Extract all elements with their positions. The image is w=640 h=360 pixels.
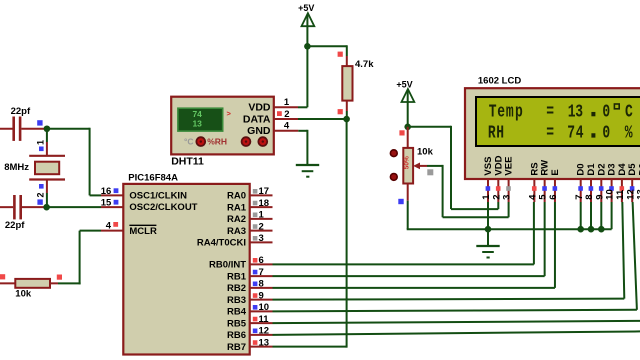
svg-text:RB5: RB5 <box>227 318 247 329</box>
wire DATA: DHT11 pin2 to node <box>274 118 347 120</box>
svg-text:6: 6 <box>548 195 559 200</box>
svg-text:2: 2 <box>36 192 46 197</box>
LCD pin 5 RW <box>538 160 551 202</box>
svg-text:2: 2 <box>259 221 264 232</box>
svg-text:1: 1 <box>259 210 265 221</box>
LCD text line 1: Temp = 13.0°C <box>489 101 633 122</box>
svg-text:6: 6 <box>259 255 264 266</box>
LCD pin 2 VDD <box>491 155 504 202</box>
label pin 4 <box>106 221 118 232</box>
svg-text:15: 15 <box>101 197 112 208</box>
LCD pin 7 D0 <box>574 163 587 202</box>
U1 pin RB3 / stub 9 <box>227 290 273 305</box>
LCD pin 11 D4 <box>615 163 628 202</box>
node D0 junction <box>577 226 584 233</box>
svg-text:MCLR: MCLR <box>129 226 157 237</box>
svg-text:%: % <box>625 122 633 143</box>
wire LCD VSS to rail <box>487 202 489 229</box>
LCD pin 8 D1 <box>584 163 597 202</box>
svg-text:22pf: 22pf <box>11 106 31 117</box>
crystal X1 8MHz <box>4 129 65 207</box>
wire LCD D1 to rail <box>590 202 592 229</box>
LCD pin 12 D5 <box>625 163 638 202</box>
DHT11 red indicator 2 <box>242 137 251 146</box>
U1 pin RA3 / stub 2 <box>227 221 273 236</box>
svg-text:RB2: RB2 <box>227 283 246 294</box>
svg-text:+5V: +5V <box>298 3 314 13</box>
svg-text:16: 16 <box>101 186 112 197</box>
wire LCD D2 to rail <box>600 202 602 229</box>
ground symbol (LCD) <box>476 229 499 257</box>
svg-text:1: 1 <box>36 140 46 145</box>
node D2 junction <box>598 226 605 233</box>
svg-text:0: 0 <box>602 101 610 122</box>
wire R2 bottom to DATA node <box>338 101 347 119</box>
U1 pin RB1 / stub 7 <box>227 267 273 282</box>
svg-text:OSC2/CLKOUT: OSC2/CLKOUT <box>129 202 197 213</box>
svg-text:VDD: VDD <box>248 102 271 114</box>
LCD pin 13 D6 <box>636 163 640 202</box>
node +5V junction <box>304 43 311 50</box>
svg-text:50%: 50% <box>404 156 411 169</box>
svg-text:8MHz: 8MHz <box>4 162 29 173</box>
LCD pin 4 RS <box>527 162 540 202</box>
svg-text:13: 13 <box>192 119 202 129</box>
svg-text:4: 4 <box>576 122 584 143</box>
svg-text:RA4/T0CKI: RA4/T0CKI <box>197 238 246 249</box>
wire OSC1: junction to PIC pin16 <box>47 128 123 196</box>
svg-text:VEE: VEE <box>504 157 515 176</box>
wire GND: DHT11 pin4 to ground <box>274 130 308 165</box>
wire wiper to LCD VEE <box>427 165 509 217</box>
svg-text:R: R <box>488 122 496 143</box>
node D1 junction <box>588 226 595 233</box>
RV1 wiper arrow <box>413 163 433 176</box>
svg-text:DATA: DATA <box>243 113 271 125</box>
LCD screen <box>476 97 640 146</box>
resistor R1 10k <box>0 274 62 299</box>
U1 pin RB7 / stub 13 <box>227 337 273 352</box>
U1 pin RB6 / stub 12 <box>227 326 273 341</box>
LCD pin 10 D3 <box>605 163 618 202</box>
svg-text:1602 LCD: 1602 LCD <box>478 76 521 87</box>
svg-text:RA0: RA0 <box>227 191 246 202</box>
svg-text:8: 8 <box>259 279 264 290</box>
svg-text:RB0/INT: RB0/INT <box>209 260 246 271</box>
svg-text:p: p <box>515 101 523 122</box>
svg-text:RB3: RB3 <box>227 295 246 306</box>
svg-text:10k: 10k <box>15 288 32 299</box>
DHT11 display window <box>178 108 223 131</box>
svg-text:18: 18 <box>259 198 270 209</box>
U1 pin name MCLR with overline <box>129 225 157 237</box>
svg-text:10k: 10k <box>417 147 434 158</box>
capacitor C2 22pf (bottom) <box>0 195 44 231</box>
svg-text:RB4: RB4 <box>227 307 247 318</box>
label pin 16 <box>101 186 119 197</box>
U1 pin RB4 / stub 10 <box>227 302 273 317</box>
svg-text:=: = <box>546 122 554 143</box>
svg-text:10: 10 <box>259 302 270 313</box>
wire RB7 to DHT11 DATA <box>273 119 347 348</box>
svg-text:22pf: 22pf <box>5 220 25 231</box>
svg-text:>: > <box>227 109 232 118</box>
svg-text:3: 3 <box>502 195 513 200</box>
node junction C2/X1/OSC2 <box>43 204 50 211</box>
svg-text:GND: GND <box>247 125 271 137</box>
svg-text:RB6: RB6 <box>227 330 246 341</box>
wire RB2 to LCD E <box>273 202 555 288</box>
wire RB5 to LCD D6 <box>273 321 640 323</box>
svg-text:DHT11: DHT11 <box>171 156 204 168</box>
LCD pin 1 VSS <box>481 157 494 202</box>
svg-text:RB7: RB7 <box>227 342 246 353</box>
wire +5V to R2 top <box>307 45 346 66</box>
svg-text:7: 7 <box>567 122 575 143</box>
svg-text:4.7k: 4.7k <box>355 59 374 70</box>
svg-text:%RH: %RH <box>207 137 227 147</box>
svg-text:RA2: RA2 <box>227 214 246 225</box>
DHT11 red indicator 3 <box>258 137 267 146</box>
wire RB0 to LCD RS <box>273 202 534 264</box>
U1 pin RB5 / stub 11 <box>227 314 273 329</box>
svg-text:+5V: +5V <box>396 80 412 90</box>
ground symbol (DHT11) <box>296 165 319 177</box>
DHT11 red indicator 1 <box>196 137 205 146</box>
wire +5V to LCD VDD <box>408 126 499 209</box>
svg-text:3: 3 <box>575 101 583 122</box>
svg-text:RA3: RA3 <box>227 226 246 237</box>
svg-text:e: e <box>497 101 505 122</box>
wire RB3 to LCD D4 <box>273 202 625 300</box>
svg-text:7: 7 <box>259 267 264 278</box>
svg-text:C: C <box>625 101 633 122</box>
LCD text line 2: RH = 74.0 % <box>488 122 633 143</box>
U1 pin RB2 / stub 8 <box>227 279 273 294</box>
svg-text:OSC1/CLKIN: OSC1/CLKIN <box>129 190 187 201</box>
U1 pin RB0/INT / stub 6 <box>209 255 272 270</box>
wire OSC2: junction to PIC pin15 <box>47 206 124 208</box>
node junction C1/X1/OSC1 <box>44 125 51 132</box>
U1 pin RA2 / stub 1 <box>227 210 273 225</box>
svg-text:RA1: RA1 <box>227 202 247 213</box>
svg-text:13: 13 <box>259 337 270 348</box>
wire RB4 to LCD D5 <box>273 202 637 311</box>
wire LCD D0 to rail <box>580 202 582 229</box>
node pot top junction <box>399 124 411 136</box>
svg-text:3: 3 <box>259 233 264 244</box>
svg-text:12: 12 <box>259 326 270 337</box>
U1 pin RA4/T0CKI / stub 3 <box>197 233 273 248</box>
resistor R2 4.7k <box>342 59 374 101</box>
wire MCLR net: R1 to PIC pin4 <box>58 231 123 285</box>
power +5V (main) <box>298 3 314 107</box>
LCD pin 9 D2 <box>594 163 607 202</box>
LCD pin 6 E <box>548 169 561 202</box>
svg-text:=: = <box>546 101 554 122</box>
node VSS ground junction <box>485 226 492 233</box>
svg-text:4: 4 <box>106 221 112 232</box>
RV1 up button <box>390 150 397 157</box>
svg-text:E: E <box>550 169 561 175</box>
svg-text:RB1: RB1 <box>227 271 247 282</box>
crystal pin label 1 <box>36 140 46 151</box>
LCD LCD1 1602 body <box>465 76 640 179</box>
svg-text:m: m <box>506 101 514 122</box>
wire ground rail <box>407 202 612 229</box>
op-amp U1 PIC16F84A microcontroller <box>123 173 249 355</box>
svg-text:PIC16F84A: PIC16F84A <box>128 173 178 184</box>
transistor U2 DHT11 sensor body <box>171 97 274 155</box>
LCD pin 3 VEE <box>502 157 515 202</box>
svg-text:17: 17 <box>259 186 270 197</box>
label pin 15 <box>101 197 119 208</box>
U1 pin RA0 / stub 17 <box>227 186 273 201</box>
svg-text:13: 13 <box>636 189 640 200</box>
U1 pin RA1 / stub 18 <box>227 198 273 213</box>
wire RV1 bottom to ground rail <box>398 184 407 230</box>
node DATA junction <box>343 116 350 123</box>
svg-text:°C: °C <box>184 137 194 147</box>
wire RB1 to LCD RW <box>273 202 545 276</box>
capacitor C1 22pf (top) <box>0 106 44 141</box>
svg-text:74: 74 <box>192 109 202 119</box>
svg-text:H: H <box>496 122 504 143</box>
wire VDD: DHT11 pin1 to +5V rail <box>274 106 308 108</box>
wire RB6 to LCD D7 <box>273 331 640 335</box>
svg-text:0: 0 <box>602 122 610 143</box>
potentiometer RV1 10k <box>403 127 433 184</box>
DHT11 pin 2 label <box>277 109 290 120</box>
svg-text:9: 9 <box>259 290 264 301</box>
svg-text:11: 11 <box>259 314 270 325</box>
power +5V (pot) <box>396 80 414 127</box>
svg-text:T: T <box>489 101 497 122</box>
crystal pin label 2 <box>36 184 46 198</box>
RV1 down button <box>390 174 397 181</box>
